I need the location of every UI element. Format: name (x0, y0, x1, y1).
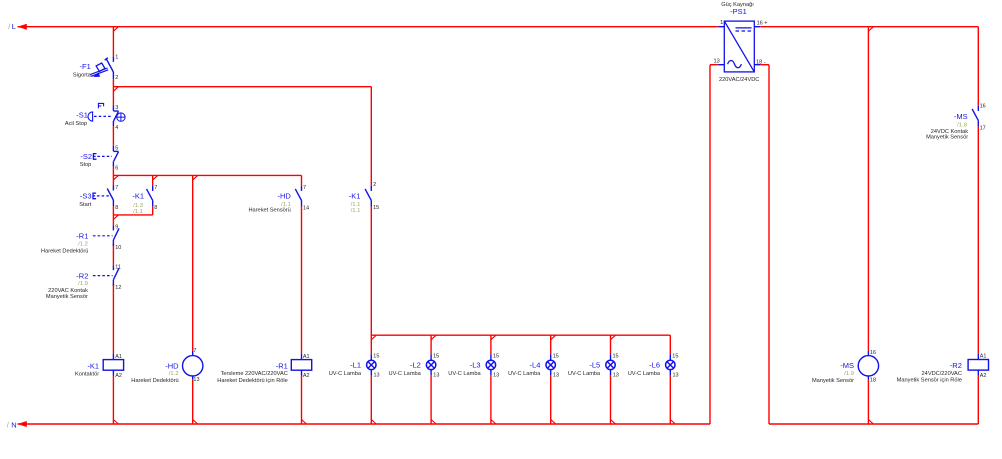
svg-text:UV-C Lamba: UV-C Lamba (628, 371, 661, 377)
svg-text:-HD: -HD (277, 192, 291, 201)
S2 actuator dashed link (97, 155, 112, 157)
svg-text:12: 12 (115, 285, 121, 291)
svg-text:A1: A1 (115, 354, 122, 360)
svg-text:16: 16 (870, 350, 876, 356)
svg-text:6: 6 (115, 166, 118, 172)
junction lamp bus / L4 branch (551, 335, 556, 340)
svg-text:UV-C Lamba: UV-C Lamba (508, 371, 541, 377)
svg-text:15: 15 (613, 353, 619, 359)
motion sensor contact HD (301, 186, 303, 191)
svg-text:-R2: -R2 (76, 271, 88, 280)
wire L rail right section (24VDC +) (760, 26, 978, 28)
R2 dashed link (93, 275, 113, 277)
junction N rail / L4 branch (551, 420, 556, 425)
svg-text:-S1: -S1 (76, 111, 88, 120)
svg-text:UV-C Lamba: UV-C Lamba (568, 371, 601, 377)
junction wire3 at main ladder (113, 175, 118, 180)
svg-text:-MS: -MS (840, 361, 854, 370)
svg-text:/1.1: /1.1 (351, 208, 361, 214)
junction N rail / L3 branch (491, 420, 496, 425)
S3 actuator dashed link (97, 195, 109, 197)
relay coil R1 (301, 354, 303, 360)
junction wire3 / HD device branch (193, 175, 198, 180)
wire K1 lamp contact branch upper (370, 87, 372, 186)
svg-text:13: 13 (374, 373, 380, 379)
wire L rail arrow (18, 24, 27, 30)
auxiliary contact K1 (hold-in) (152, 186, 154, 191)
wire L2 branch upper (430, 335, 432, 354)
wire main ladder: R2 contact to K1 coil (112, 284, 114, 354)
svg-text:UV-C Lamba: UV-C Lamba (448, 371, 481, 377)
svg-text:A2: A2 (303, 373, 310, 379)
S1 mushroom actuator (88, 112, 93, 121)
wire L5 branch upper (610, 335, 612, 354)
svg-text:18 -: 18 - (756, 60, 766, 66)
emergency stop S1 contact (112, 105, 114, 110)
svg-text:7: 7 (115, 185, 118, 191)
junction 24VDC bus / MS coil branch (868, 420, 873, 425)
contactor coil K1 (112, 354, 114, 360)
svg-text:13: 13 (553, 373, 559, 379)
relay contact R1 (motion detector) (112, 225, 114, 230)
svg-text:Manyetik Sensör: Manyetik Sensör (46, 294, 88, 300)
wire main ladder: K1 coil to N rail (112, 376, 114, 425)
lamp control contact K1 (370, 186, 372, 191)
svg-text:2: 2 (115, 75, 118, 81)
wire N rail arrow (18, 421, 27, 427)
svg-text:Manyetik Sensör: Manyetik Sensör (926, 134, 968, 140)
junction N rail / HD device branch (193, 420, 198, 425)
S1 actuator dashed link (94, 115, 112, 117)
svg-text:-MS: -MS (954, 112, 968, 121)
svg-text:18: 18 (870, 377, 876, 383)
wire HD contact to R1 coil (301, 206, 303, 354)
svg-text:Manyetik Sensör için Röle: Manyetik Sensör için Röle (897, 378, 962, 384)
svg-text:-PS1: -PS1 (730, 7, 747, 16)
svg-text:16: 16 (980, 104, 986, 110)
S3 button actuator (93, 193, 96, 199)
svg-text:7: 7 (193, 348, 196, 354)
svg-text:A2: A2 (115, 373, 122, 379)
svg-text:-L1: -L1 (350, 361, 361, 370)
svg-text:Hareket Sensörü: Hareket Sensörü (248, 208, 290, 214)
wire L3 branch lower (490, 375, 492, 424)
UV-C lamp L2 (430, 354, 432, 360)
wire PS1 pin13 horizontal (710, 64, 718, 66)
svg-text:-S3: -S3 (80, 191, 92, 200)
junction lamp bus / L3 branch (491, 335, 496, 340)
wire S3-K1 parallel connector (113, 214, 152, 216)
wire R1 coil to N rail (301, 376, 303, 425)
svg-text:Manyetik Sensör: Manyetik Sensör (812, 378, 854, 384)
PS1 DC symbol (736, 27, 752, 29)
svg-text:1: 1 (115, 54, 118, 60)
svg-text:-L5: -L5 (589, 361, 600, 370)
svg-text:7: 7 (154, 185, 157, 191)
wire MS coil branch upper (867, 27, 869, 351)
UV-C lamp L5 (610, 354, 612, 360)
PS1 AC symbol (728, 61, 742, 68)
svg-text:A2: A2 (980, 373, 987, 379)
pin 1 stub of PS1 (718, 26, 724, 28)
start button S3 contact (112, 186, 114, 191)
svg-text:-R1: -R1 (76, 232, 88, 241)
svg-text:-K1: -K1 (349, 191, 361, 200)
fuse-breaker F1 symbol (112, 56, 114, 62)
svg-text:13: 13 (193, 377, 199, 383)
svg-text:-L3: -L3 (470, 361, 481, 370)
wire L4 branch lower (550, 375, 552, 424)
svg-text:13: 13 (673, 373, 679, 379)
junction lamp bus / L5 branch (611, 335, 616, 340)
svg-text:/1.2: /1.2 (78, 241, 88, 247)
motion detector device HD (192, 351, 194, 356)
wire PS1 pin18 drop (24VDC -) (768, 65, 770, 424)
svg-text:Hareket Dedektörü: Hareket Dedektörü (41, 249, 88, 255)
S1 turn-to-release symbol (117, 113, 125, 121)
svg-text:L: L (12, 22, 16, 31)
svg-text:4: 4 (115, 125, 118, 131)
relay coil R2 (977, 354, 979, 360)
svg-text:Stop: Stop (80, 162, 92, 168)
junction N rail / K1 coil branch (113, 420, 118, 425)
S1 latch glyph (98, 103, 103, 108)
svg-text:UV-C Lamba: UV-C Lamba (329, 371, 362, 377)
svg-text:15: 15 (553, 353, 559, 359)
svg-text:-R2: -R2 (950, 361, 962, 370)
wire main ladder: S1 to S2 (112, 126, 114, 146)
wire L rail left section (18, 26, 719, 28)
junction L rail / F1 branch (113, 27, 118, 32)
wire K1 lamp contact to lamp bus and L1 (370, 206, 372, 354)
svg-text:9: 9 (115, 225, 118, 231)
UV-C lamp L3 (490, 354, 492, 360)
svg-text:Hareket Dedektörü: Hareket Dedektörü (131, 378, 178, 384)
svg-text:5: 5 (115, 145, 118, 151)
svg-text:15: 15 (373, 205, 379, 211)
svg-text:-F1: -F1 (80, 62, 91, 71)
UV-C lamp L1 (370, 354, 372, 360)
S2 button actuator (93, 154, 96, 160)
wire main ladder: R1 to R2 contact (112, 244, 114, 265)
svg-text:2: 2 (373, 182, 376, 188)
svg-text:14: 14 (303, 205, 309, 211)
wire K1 aux branch upper (152, 175, 154, 186)
wire PS1 pin13 drop to N rail (709, 65, 711, 424)
wire K1 aux branch lower (152, 206, 154, 215)
svg-text:A1: A1 (980, 353, 987, 359)
svg-text:13: 13 (493, 373, 499, 379)
svg-text:Start: Start (79, 202, 91, 208)
wire HD device branch upper (192, 175, 194, 350)
svg-text:/1.1: /1.1 (133, 209, 143, 215)
wire L2 branch lower (430, 375, 432, 424)
svg-text:15: 15 (493, 353, 499, 359)
svg-text:UV-C Lamba: UV-C Lamba (389, 371, 422, 377)
svg-text:16 +: 16 + (757, 20, 768, 26)
svg-text:/1.9: /1.9 (844, 371, 854, 377)
pin 18 stub of PS1 (754, 64, 760, 66)
wire PS1 pin18 horizontal (760, 64, 769, 66)
svg-text:Kontaktör: Kontaktör (75, 372, 99, 378)
junction N rail / L6 branch (670, 420, 675, 425)
wire lamp bus (371, 334, 670, 336)
wire S2 output horizontal (113, 174, 301, 176)
svg-text:-L6: -L6 (649, 361, 660, 370)
wire MS coil branch lower (867, 379, 869, 424)
svg-text:Sigorta: Sigorta (73, 72, 92, 78)
svg-text:-S2: -S2 (80, 152, 92, 161)
svg-text:17: 17 (980, 125, 986, 131)
wire right column: rail to MS contact (977, 27, 979, 106)
wire main ladder: S3 to R1 contact (112, 206, 114, 225)
wire 24VDC - bus (769, 423, 978, 425)
svg-text:-K1: -K1 (132, 191, 144, 200)
wire HD device branch lower (192, 379, 194, 424)
wire L4 branch upper (550, 335, 552, 354)
wire right column: R2 coil to 24VDC bus (977, 375, 979, 424)
R1 dashed link (93, 235, 113, 237)
junction connector at main ladder (113, 215, 118, 220)
wire main ladder: rail to F1 (112, 27, 114, 57)
svg-text:-L2: -L2 (410, 361, 421, 370)
wire HD contact branch upper (301, 175, 303, 186)
wire L3 branch upper (490, 335, 492, 354)
svg-text:8: 8 (154, 205, 157, 211)
svg-text:Tersleme 220VAC/220VAC: Tersleme 220VAC/220VAC (221, 371, 288, 377)
wire L6 branch upper (669, 335, 671, 354)
power supply PS1 box (724, 21, 754, 72)
svg-text:7: 7 (303, 185, 306, 191)
svg-text:/1.9: /1.9 (78, 281, 88, 287)
wire L6 branch lower (669, 375, 671, 424)
svg-text:A1: A1 (303, 354, 310, 360)
junction N rail / L5 branch (611, 420, 616, 425)
svg-text:24VDC/220VAC: 24VDC/220VAC (922, 371, 962, 377)
junction lamp bus / L2 branch (431, 335, 436, 340)
svg-text:15: 15 (373, 353, 379, 359)
svg-text:3: 3 (115, 105, 118, 111)
svg-text:11: 11 (115, 264, 121, 270)
junction wire2 at main ladder (113, 87, 118, 92)
svg-text:N: N (11, 420, 16, 429)
UV-C lamp L6 (669, 354, 671, 360)
wire N rail (18, 423, 711, 425)
svg-text:-HD: -HD (165, 361, 179, 370)
svg-text:15: 15 (433, 353, 439, 359)
wire L1 to N rail (370, 375, 372, 424)
svg-text:Acil Stop: Acil Stop (65, 121, 87, 127)
stop button S2 contact (112, 146, 114, 151)
svg-text:220VAC/24VDC: 220VAC/24VDC (719, 77, 759, 83)
svg-text:13: 13 (613, 373, 619, 379)
wire right column: MS contact to R2 coil (977, 126, 979, 354)
svg-text:/1.2: /1.2 (169, 371, 179, 377)
pin 13 stub of PS1 (718, 64, 724, 66)
wire L5 branch lower (610, 375, 612, 424)
wire main ladder: F1 to S1 (112, 79, 114, 105)
svg-text:10: 10 (115, 245, 121, 251)
wire main ladder: S2 to S3 (112, 167, 114, 186)
junction N rail / R1 coil branch (302, 420, 307, 425)
magnetic sensor device MS (867, 351, 869, 356)
junction wire3 / K1 aux branch (153, 175, 158, 180)
magnetic sensor contact MS (977, 106, 979, 111)
svg-text:/1.8: /1.8 (957, 122, 968, 128)
junction lamp bus / L1 branch (371, 335, 376, 340)
svg-text:1: 1 (720, 20, 723, 26)
wire branch F1 to lamp-contact (horizontal) (113, 86, 371, 88)
svg-text:Hareket Dedektörü için Röle: Hareket Dedektörü için Röle (217, 378, 288, 384)
junction N rail / L2 branch (431, 420, 436, 425)
svg-text:-L4: -L4 (530, 361, 541, 370)
svg-text:-K1: -K1 (87, 362, 99, 371)
svg-text:15: 15 (672, 353, 678, 359)
pin 16 stub of PS1 (754, 26, 760, 28)
svg-text:13: 13 (433, 373, 439, 379)
junction N rail / L1 branch (371, 420, 376, 425)
relay contact R2 (magnetic sensor) (112, 265, 114, 270)
svg-text:-R1: -R1 (276, 361, 288, 370)
junction L rail / MS coil branch (868, 27, 873, 32)
UV-C lamp L4 (550, 354, 552, 360)
svg-text:13: 13 (714, 58, 720, 64)
svg-text:8: 8 (115, 205, 118, 211)
